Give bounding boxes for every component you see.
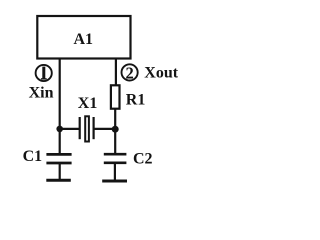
- wire pin2 (A1 bottom to R1 top): [115, 58, 117, 86]
- wire R1 bottom to node B and C2: [114, 109, 116, 155]
- ground (C2): [102, 180, 127, 183]
- amplifier A1: [37, 16, 130, 59]
- svg-text:2: 2: [125, 63, 133, 82]
- svg-text:C2: C2: [133, 151, 153, 168]
- resistor R1: [111, 85, 120, 108]
- node A junction: [56, 126, 63, 133]
- svg-text:R1: R1: [126, 91, 146, 108]
- svg-text:X1: X1: [78, 95, 98, 112]
- wire crystal right to node B: [94, 128, 116, 130]
- svg-text:C1: C1: [23, 148, 43, 165]
- svg-text:Xin: Xin: [29, 84, 54, 101]
- pin 1 marker: [36, 65, 52, 81]
- svg-text:Xout: Xout: [144, 65, 178, 82]
- crystal X1: [80, 116, 94, 141]
- ground (C1): [46, 179, 71, 182]
- capacitor C1: [46, 154, 71, 180]
- wire node A to crystal left: [60, 128, 80, 130]
- capacitor C2: [104, 154, 127, 181]
- svg-text:A1: A1: [74, 31, 94, 48]
- pin 2 marker: [122, 63, 138, 82]
- node B junction: [112, 126, 119, 133]
- wire pin1 (A1 bottom to node A and C1): [59, 58, 61, 155]
